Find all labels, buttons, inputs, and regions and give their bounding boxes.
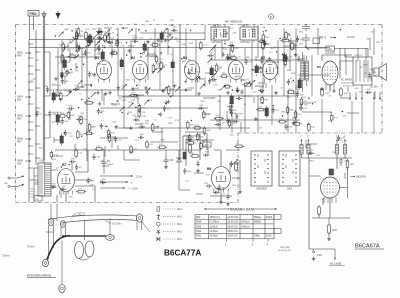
value label Rb100	[188, 60, 191, 62]
resistor Rd166	[129, 93, 139, 97]
capacitor Rz486	[171, 27, 177, 32]
svg-text:110/125/220V: 110/125/220V	[341, 83, 355, 85]
junction node Rw440	[340, 29, 341, 30]
resistor Rq394	[234, 143, 244, 147]
junction node Ra82	[140, 53, 141, 54]
wire mid bus	[118, 127, 250, 129]
svg-text:SK2/SK3: SK2/SK3	[256, 187, 267, 191]
resistor Rh266	[214, 116, 224, 120]
wire link 3	[118, 95, 296, 97]
resistor Re199	[196, 132, 204, 141]
svg-text:MW: MW	[196, 216, 201, 219]
junction node Rs415	[263, 31, 264, 32]
value label Rab525	[142, 116, 147, 118]
legend row 4	[157, 230, 183, 235]
label Rn352	[135, 140, 140, 142]
resistor Re195	[186, 140, 196, 144]
svg-text:C15 2337: C15 2337	[325, 53, 336, 55]
transformer winding labels	[30, 182, 40, 198]
junction node Rz472	[145, 30, 146, 31]
svg-text:370mm: 370mm	[27, 247, 35, 249]
capacitor Raa516	[245, 59, 253, 65]
SK1 switch box	[313, 38, 320, 44]
wire drop 4	[81, 48, 83, 88]
resistor Rq390	[200, 142, 208, 151]
wire Raa517	[267, 61, 279, 63]
svg-text:A1.51.20: A1.51.20	[52, 121, 62, 124]
coil S37	[283, 53, 286, 66]
svg-text:1M: 1M	[172, 30, 175, 32]
junction node Rac547	[81, 99, 82, 100]
junction node Ra50	[97, 32, 98, 33]
resistor Rn357	[146, 140, 154, 149]
ground Rg260	[268, 57, 272, 61]
pulley P3 right	[136, 214, 142, 222]
svg-text:221%: 221%	[136, 177, 142, 179]
junction node Rc130	[76, 66, 77, 67]
ground Rg245	[285, 57, 289, 61]
wire drop 33	[317, 28, 319, 55]
wires to inset windings	[322, 99, 374, 133]
label Ry470	[110, 103, 114, 105]
junction node Rj308	[342, 111, 343, 112]
ground Rb84	[173, 84, 177, 88]
wire Rc134	[64, 76, 66, 84]
svg-text:2.2K: 2.2K	[112, 105, 117, 107]
value label Rg259	[270, 52, 274, 54]
wire Rf216	[255, 85, 264, 87]
capacitor Ru430	[296, 36, 304, 42]
svg-text:C15,C15: C15,C15	[354, 55, 363, 57]
wire link 7	[298, 74, 330, 76]
wire Rf233	[258, 82, 265, 84]
terminal SK8	[17, 159, 31, 166]
coil S38	[298, 78, 301, 91]
capacitor Rq386	[183, 168, 191, 174]
svg-text:0.027mm: 0.027mm	[112, 224, 122, 226]
svg-text:SW4: SW4	[196, 221, 202, 224]
label Ry460	[169, 96, 174, 98]
ground Rc131	[60, 74, 64, 78]
value label Rp375	[56, 167, 60, 169]
wire Rq391	[207, 148, 209, 154]
trimming data title	[204, 208, 277, 212]
svg-text:5234 C/S: 5234 C/S	[228, 225, 238, 228]
value label Rf232	[241, 79, 245, 81]
label Ru426	[293, 44, 298, 46]
wire drop 10	[130, 40, 132, 60]
label Rk311	[302, 97, 307, 99]
svg-text:2.2K: 2.2K	[120, 45, 125, 47]
wire Rq381	[196, 193, 203, 195]
trimmer arrow Rf228	[245, 81, 250, 86]
label Ra42	[163, 32, 168, 34]
svg-text:B3: B3	[183, 56, 187, 60]
capacitor Ro364	[365, 89, 371, 94]
wire d4 drop	[104, 150, 166, 160]
trimmer arrow Rb101	[175, 86, 180, 91]
wire link 0	[210, 59, 302, 61]
label Rz473	[182, 44, 187, 46]
wire vdrop2 2	[271, 85, 273, 125]
coil S40	[160, 31, 163, 44]
label Rm337	[33, 78, 37, 80]
pointer cord top	[48, 215, 138, 223]
label Ro361	[359, 92, 364, 94]
wire Rn346	[111, 139, 113, 148]
label SK1	[319, 36, 336, 40]
wire Ru431	[290, 38, 292, 44]
wire link 1	[55, 89, 192, 91]
svg-text:1M: 1M	[116, 101, 119, 103]
value label Rn350	[108, 150, 111, 152]
value label Rb89	[197, 81, 201, 83]
screened aerial lead	[43, 19, 45, 160]
label Rm339	[43, 86, 48, 88]
junction node Rab533	[100, 112, 101, 113]
junction node Rs416	[265, 30, 266, 31]
wire Rj305	[347, 112, 359, 114]
drive cord thick	[47, 236, 106, 260]
junction node Rk319	[308, 98, 309, 99]
value label Rw439	[366, 39, 370, 41]
junction node Rs407	[224, 43, 225, 44]
wire Rw438	[347, 36, 355, 38]
wire drop 17	[185, 28, 187, 60]
pointer drive title	[27, 274, 56, 278]
ground Rd158	[146, 91, 150, 95]
coil S39	[120, 58, 123, 71]
wire drop 26	[262, 48, 264, 90]
resistor Ry468	[203, 126, 211, 135]
value label Re188	[175, 120, 180, 122]
value label Ra38	[115, 43, 119, 45]
value label Rg253	[261, 47, 265, 49]
capacitor Rg251	[263, 41, 271, 47]
label Rr403	[310, 161, 315, 163]
B6 diode	[176, 150, 190, 190]
wire drop 38	[373, 28, 375, 55]
ground Rh279	[235, 114, 239, 118]
B6 ground	[219, 190, 242, 204]
wire R18	[86, 40, 93, 42]
wire links left	[44, 52, 51, 138]
capacitor Raa520	[225, 55, 231, 60]
wire Ra48	[104, 27, 112, 29]
label Ro362	[363, 64, 368, 66]
label Ri290	[259, 99, 264, 101]
capacitor Ri287	[284, 124, 293, 130]
coil S7	[56, 112, 59, 125]
value label Rb83	[170, 54, 173, 56]
resistor R20	[77, 27, 84, 36]
svg-text:2.2K: 2.2K	[134, 98, 139, 100]
wire Rc117	[60, 72, 71, 74]
wire R8	[69, 39, 71, 44]
junction node Rz477	[117, 34, 118, 35]
wire Ri286	[253, 97, 255, 103]
capacitor Rh284	[236, 95, 242, 100]
label Rp371	[86, 179, 91, 181]
svg-text:22K: 22K	[275, 68, 279, 70]
junction node Ri302	[282, 115, 283, 116]
capacitor Rm340	[48, 110, 56, 116]
resistor Rz496	[89, 34, 97, 44]
table column ticks	[225, 239, 269, 247]
pulley P2	[60, 221, 65, 227]
coil S34	[171, 60, 174, 73]
trimmer arrow Rc116	[67, 91, 72, 96]
value label Rw441	[371, 31, 375, 33]
mechanical link shaft 1	[86, 45, 88, 161]
trimmer arrow R34	[75, 47, 80, 52]
resistor Rf208	[229, 55, 238, 59]
capacitor Rp372	[100, 179, 106, 184]
label Rc120	[79, 94, 83, 96]
svg-text:SK 1: SK 1	[319, 36, 326, 40]
wire drop 23	[244, 48, 246, 60]
resistor Rn348	[108, 133, 116, 143]
wire drop 16	[172, 48, 174, 96]
svg-text:2.2K: 2.2K	[142, 116, 147, 118]
junction node Rad554	[90, 84, 91, 85]
value label Rab526	[122, 100, 128, 102]
value label Rd169	[116, 101, 119, 103]
label Ri291	[292, 118, 297, 120]
svg-text:196a: 196a	[254, 235, 260, 238]
value label Rk313	[307, 124, 310, 126]
capacitor Rx450	[69, 158, 75, 163]
wire Rf217	[240, 79, 246, 81]
value label Rh275	[217, 101, 221, 103]
label Rad549	[66, 62, 71, 64]
label Rz497	[132, 36, 137, 38]
trimmer arrow Ra61	[128, 29, 133, 34]
value label Rab528	[112, 105, 117, 107]
capacitor Ri301	[272, 107, 280, 113]
wire drop 20	[214, 48, 216, 60]
wire Rc126	[84, 84, 92, 86]
wire R30	[86, 37, 88, 43]
junction node Re177	[157, 126, 158, 127]
junction node Rf205	[232, 89, 233, 90]
svg-text:ca.1000mm: ca.1000mm	[74, 213, 86, 215]
bus tap ticks	[28, 43, 40, 168]
wire drop 30	[295, 28, 297, 90]
junction node R14	[55, 35, 56, 36]
wire drop 36	[357, 48, 359, 60]
chassis border top	[16, 24, 383, 26]
value label Rr397	[315, 155, 320, 157]
label Rq385	[205, 175, 210, 177]
ground g10	[260, 90, 264, 94]
svg-text:15.50 C/S: 15.50 C/S	[228, 221, 239, 224]
label Rh281	[239, 114, 244, 116]
svg-text:B2: B2	[131, 56, 135, 60]
arrow to output	[329, 249, 345, 266]
mains caps stack	[302, 24, 310, 50]
coil S35	[210, 66, 213, 79]
label Rm341	[39, 147, 44, 149]
resistor Re197	[202, 110, 210, 119]
wire Rd168	[137, 95, 139, 104]
wire link 8	[302, 111, 330, 113]
switch contact arrow a	[5, 176, 25, 188]
value label Rr404	[344, 161, 350, 163]
resistor Rg246	[258, 38, 267, 42]
label Ru432	[299, 44, 304, 46]
label Rh271	[234, 114, 239, 116]
label Rd163	[135, 88, 140, 90]
svg-text:2.2K: 2.2K	[289, 48, 294, 50]
wire FRO down	[30, 16, 34, 40]
junction node Rc121	[68, 72, 69, 73]
trimmer arrow R21	[59, 32, 64, 37]
capacitor Rq379	[213, 189, 219, 194]
ground Re200	[167, 100, 171, 104]
resistor Rz492	[87, 38, 95, 48]
resistor Raa514	[215, 63, 223, 73]
label Rf203	[236, 76, 241, 78]
wire low bus	[55, 149, 200, 151]
ground Re193	[159, 112, 163, 116]
value label Rj307	[329, 95, 332, 97]
resistor Rz489	[62, 42, 70, 52]
capacitor Rf230	[228, 42, 234, 47]
svg-text:12.50 C/S: 12.50 C/S	[228, 216, 239, 219]
value label Rz475	[176, 41, 180, 43]
wire Re187	[153, 131, 163, 133]
svg-text:2.2K: 2.2K	[213, 84, 218, 86]
capacitor Rc115	[65, 69, 74, 75]
wire Rac543	[53, 137, 55, 143]
label Rq382	[230, 134, 235, 136]
ground Rd149	[117, 86, 121, 90]
mains section wires	[306, 44, 374, 92]
capacitor C19	[312, 249, 323, 260]
terminal SK4	[17, 95, 31, 102]
svg-text:S16: S16	[39, 160, 44, 163]
value label Rab530	[130, 97, 133, 99]
wire drop 3	[75, 28, 77, 48]
value label R7	[71, 48, 75, 50]
junction node Rf220	[224, 85, 225, 86]
wire drop 2	[69, 48, 71, 62]
junction node Ra59	[168, 46, 169, 47]
capacitor Rk320	[299, 105, 308, 111]
capacitor Rq389	[230, 161, 239, 167]
junction node Rf212	[258, 68, 259, 69]
label Rab531	[128, 102, 133, 104]
switch bank SK2/SK3	[251, 151, 272, 191]
valve B7 output	[58, 163, 75, 195]
B6CA67A top components	[329, 158, 355, 175]
capacitor Ro366	[368, 72, 377, 78]
junction node Rk314	[312, 103, 313, 104]
label Rb110	[160, 63, 165, 65]
resistor Re198	[193, 125, 202, 129]
cord verticals	[49, 204, 151, 285]
wire vdrop2 0	[244, 85, 246, 133]
junction node Rb91	[185, 66, 186, 67]
capacitor Rc132	[54, 92, 60, 97]
junction node Rs408	[213, 38, 214, 39]
ground Ra49	[146, 40, 150, 44]
svg-text:500pF: 500pF	[107, 164, 114, 166]
value label Rf209	[238, 57, 241, 59]
svg-text:2.2K: 2.2K	[175, 120, 180, 122]
svg-text:11 Mc/s: 11 Mc/s	[210, 225, 219, 228]
label Rd165	[145, 121, 150, 123]
wire Rh277	[240, 122, 242, 132]
label Rk315	[305, 104, 309, 106]
wire drop 25	[257, 25, 259, 58]
label Rk310	[328, 121, 333, 123]
junction node Rz485	[190, 30, 191, 31]
value label Rf227	[223, 49, 228, 51]
wire drop 8	[117, 28, 119, 96]
value label Ry462	[112, 121, 116, 123]
label Rad556	[65, 71, 70, 73]
label Rs414	[251, 29, 256, 31]
label Rj306	[312, 102, 317, 104]
capacitor Rp369	[60, 186, 66, 191]
svg-text:2.2K: 2.2K	[315, 155, 320, 157]
junction node Rad552	[91, 85, 92, 86]
junction node Rb94	[185, 81, 186, 82]
ground Rf222	[222, 52, 226, 56]
svg-text:TRIMMING DATA: TRIMMING DATA	[228, 208, 255, 212]
label Rr401	[338, 139, 343, 141]
value label Re185	[154, 120, 157, 122]
capacitor Rq387	[203, 152, 209, 157]
resistor Rb92	[167, 85, 175, 95]
wire HT bus 2	[29, 47, 330, 49]
value label Ra36	[150, 56, 153, 58]
label Rac537	[80, 113, 85, 115]
trimmer arrow Rb105	[200, 84, 205, 89]
junction node Rl327	[78, 107, 79, 108]
resistor Rg264	[284, 57, 292, 67]
ground g2	[108, 91, 112, 95]
resistor Rk309	[330, 113, 338, 122]
capacitor Rd157	[139, 123, 145, 128]
resistor Re186	[188, 134, 195, 143]
wire Ro358	[374, 91, 376, 99]
junction node Ru427	[288, 33, 289, 34]
value label Rz479	[92, 29, 98, 31]
junction node Rz495	[93, 37, 94, 38]
value label Rc124	[60, 73, 64, 75]
wire drop 28	[283, 28, 285, 96]
label Rf210	[217, 89, 222, 91]
value label Rh278	[222, 123, 225, 125]
svg-text:MW: MW	[17, 118, 22, 121]
label Rx449	[100, 181, 103, 183]
junction node Rab529	[135, 107, 136, 108]
AC voltage selector block	[353, 55, 372, 85]
trimmer arrow Ra47	[168, 36, 173, 41]
capacitor Rf206	[236, 86, 245, 92]
resistor Ri293	[261, 96, 269, 105]
mechanical link shaft 2	[179, 25, 181, 160]
wire drop 1	[61, 40, 63, 75]
wire drop 32	[311, 55, 313, 96]
label AF frequency	[225, 20, 242, 24]
junction node Rc113	[70, 69, 71, 70]
svg-text:5235 C/S: 5235 C/S	[228, 230, 238, 233]
ground Rd140	[129, 126, 133, 130]
